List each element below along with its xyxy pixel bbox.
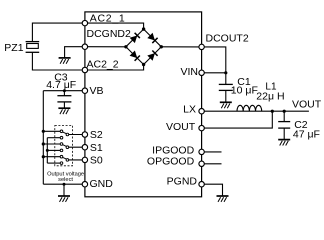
node bus dot S2: [42, 130, 45, 133]
pin AC2_1: [82, 20, 87, 25]
pin IPGOOD: [199, 149, 204, 154]
svg-text:VOUT: VOUT: [166, 121, 196, 133]
svg-text:22μ H: 22μ H: [256, 90, 284, 102]
bridge diode D3 (bottom-left): [130, 51, 140, 61]
bridge diode D2 (top-right): [147, 33, 157, 43]
node C2 tap: [283, 110, 286, 113]
wire OPGOOD stub: [202, 163, 222, 165]
node VIN junction: [224, 71, 227, 74]
svg-text:select: select: [58, 177, 73, 183]
pin DCGND2: [82, 44, 87, 49]
svg-text:10 μF: 10 μF: [231, 85, 258, 97]
svg-text:VB: VB: [90, 85, 104, 97]
node bus dot S1: [42, 142, 45, 145]
svg-text:AC2_2: AC2_2: [87, 59, 119, 71]
svg-text:S1: S1: [90, 142, 103, 154]
svg-text:PZ1: PZ1: [4, 42, 23, 54]
switch box (dashed): [55, 126, 73, 166]
wire LX to VOUT net (under inductor): [202, 110, 309, 112]
IC U1 body: [85, 12, 202, 197]
node GND ground junction: [63, 183, 66, 186]
svg-text:GND: GND: [90, 178, 114, 190]
wire AC2_1 to bridge top: [85, 23, 144, 29]
svg-text:VOUT: VOUT: [292, 99, 322, 111]
wire C3 stub: [63, 91, 65, 96]
ground at GND: [58, 196, 70, 202]
pin VB: [82, 88, 87, 93]
wire VOUT pin to riser: [202, 111, 273, 128]
svg-text:4.7 μF: 4.7 μF: [46, 79, 76, 91]
svg-text:VIN: VIN: [180, 66, 198, 78]
svg-text:47 μF: 47 μF: [293, 129, 320, 141]
switch S1 contacts: [60, 143, 68, 152]
pin PGND: [199, 182, 204, 187]
bridge diode D4 (bottom-right): [147, 51, 157, 61]
switch S0 wires: [43, 157, 85, 163]
ground at C1: [220, 102, 232, 108]
bridge rectifier diamond: [126, 29, 161, 64]
svg-text:LX: LX: [183, 104, 196, 116]
pin VIN: [199, 70, 204, 75]
wire DCGND2 to bridge left: [85, 46, 126, 48]
pin GND: [82, 182, 87, 187]
pin VOUT: [199, 125, 204, 130]
ground at PGND: [217, 196, 229, 202]
ground at DCGND2: [59, 58, 71, 64]
ground at C2: [278, 140, 290, 146]
wire C2 stub: [283, 111, 285, 121]
capacitor C2: [278, 122, 290, 140]
bridge diode D1 (top-left): [130, 33, 140, 43]
wire PGND to ground: [202, 184, 223, 196]
svg-text:PGND: PGND: [167, 176, 198, 188]
pin S1: [82, 145, 87, 150]
node L1 out / VOUT riser: [271, 110, 274, 113]
svg-text:S2: S2: [90, 129, 103, 141]
pin DCOUT2: [199, 44, 204, 49]
wire GND to bus: [43, 183, 85, 185]
svg-text:DCOUT2: DCOUT2: [206, 33, 249, 45]
wire PZ1 bottom to AC2_2: [32, 52, 85, 70]
node VB/C3 junction: [63, 89, 66, 92]
wire VB to C3 node and bus: [43, 90, 85, 92]
pin LX: [199, 109, 204, 114]
capacitor C1: [219, 84, 233, 102]
switch S0 contacts: [60, 155, 68, 164]
pin S0: [82, 157, 87, 162]
svg-text:DCGND2: DCGND2: [87, 28, 131, 40]
ground at C3: [58, 108, 70, 114]
svg-text:S0: S0: [90, 155, 103, 167]
wire IPGOOD stub: [202, 151, 222, 153]
pin OPGOOD: [199, 161, 204, 166]
pin AC2_2: [82, 67, 87, 72]
switch S2 contacts: [60, 130, 68, 139]
wire bridge right to DCOUT2: [161, 46, 201, 48]
inductor L1: [237, 105, 262, 111]
wire DCOUT2 to C1 column: [202, 47, 226, 85]
wire VIN: [202, 72, 226, 74]
switch S1 wires: [43, 144, 85, 150]
wire PZ1 top to AC2_1: [32, 23, 85, 41]
wire DCGND2 to ground: [65, 47, 85, 58]
wire VB bus: [42, 91, 44, 185]
wire ground stub: [63, 184, 65, 196]
piezo element PZ1: [26, 42, 40, 53]
capacitor C3: [57, 96, 71, 109]
wire AC2_2 to bridge bottom: [85, 65, 144, 71]
node inner bus S1: [46, 149, 49, 152]
svg-text:OPGOOD: OPGOOD: [147, 156, 195, 168]
svg-text:AC2_1: AC2_1: [90, 12, 126, 24]
node bridge corners: [142, 27, 145, 30]
pin S2: [82, 132, 87, 137]
node bus dot S0: [42, 155, 45, 158]
wire inner bus: [46, 138, 48, 163]
switch S2 wires: [43, 131, 85, 137]
